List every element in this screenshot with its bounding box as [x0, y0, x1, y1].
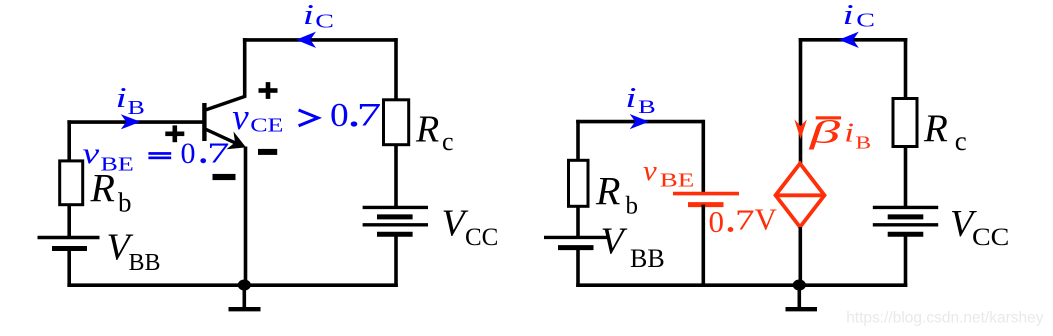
svg-text:i: i	[844, 117, 854, 147]
resistor Rb	[60, 161, 83, 205]
label 0.7V red	[709, 201, 778, 239]
wire VCC to bottom right	[904, 234, 908, 287]
battery VCC right short plate 1	[888, 214, 924, 219]
wire source branch vertical bottom	[798, 227, 802, 285]
wire base horizontal	[67, 120, 203, 124]
wire Rc top	[394, 38, 398, 100]
label iC current	[303, 0, 334, 32]
svg-text:7: 7	[207, 137, 229, 169]
svg-text:0: 0	[181, 137, 196, 170]
svg-text:0: 0	[709, 204, 725, 239]
battery VCC long plate 2	[363, 223, 428, 226]
wire Rc to battery	[394, 145, 398, 208]
label VBB right	[601, 221, 665, 274]
label Rc right	[923, 107, 967, 156]
resistor Rc	[384, 100, 409, 145]
label iB right	[625, 82, 655, 118]
arrow iC right	[839, 32, 859, 48]
battery VBB right short plate	[558, 245, 594, 250]
svg-text:v: v	[643, 156, 658, 186]
label Rc	[415, 109, 454, 157]
label vCE > 0.7	[232, 96, 381, 138]
plus sign base	[165, 125, 184, 142]
svg-text:i: i	[843, 0, 854, 31]
svg-text:c: c	[442, 127, 454, 156]
dependent source middle bar	[776, 193, 825, 197]
svg-text:BB: BB	[129, 250, 161, 276]
battery VBB long plate	[38, 236, 100, 239]
svg-text:i: i	[625, 82, 636, 114]
svg-text:BE: BE	[101, 153, 134, 175]
ground bar right	[786, 307, 818, 311]
label iB current	[116, 82, 145, 119]
svg-text:R: R	[923, 107, 948, 150]
battery VCC right short plate 2	[888, 232, 924, 237]
wire bottom horizontal right	[576, 283, 907, 287]
minus sign vCE	[258, 149, 277, 155]
svg-text:CE: CE	[250, 114, 283, 136]
arrow iB right	[630, 114, 650, 129]
resistor Rc right	[893, 99, 917, 147]
svg-text:B: B	[856, 132, 872, 153]
transistor Q1 collector diagonal	[204, 96, 246, 111]
transistor Q1 emitter arrow	[227, 132, 247, 150]
svg-text:C: C	[315, 10, 334, 32]
svg-text:V: V	[755, 201, 778, 236]
arrow beta iB red	[794, 119, 807, 139]
wire battery to bottom	[67, 249, 71, 288]
svg-text:7: 7	[357, 97, 382, 133]
battery VCC right long plate 1	[873, 206, 938, 209]
ground stub	[243, 285, 247, 307]
wire left vertical top	[67, 120, 71, 160]
wire VCC to bottom	[394, 234, 398, 287]
svg-text:β: β	[809, 114, 842, 150]
wire battery to bottom right	[576, 248, 580, 287]
svg-text:v: v	[232, 97, 249, 138]
label vBE = 0.7	[83, 137, 230, 176]
wire emitter vertical	[244, 147, 248, 286]
resistor Rb right	[569, 160, 589, 206]
svg-text:BB: BB	[630, 244, 665, 273]
svg-text:CC: CC	[465, 224, 498, 251]
svg-text:https://blog.csdn.net/karshey: https://blog.csdn.net/karshey	[846, 310, 1044, 327]
ground stub right	[797, 285, 801, 307]
wire top horizontal	[243, 38, 398, 42]
battery VCC right long plate 2	[873, 223, 938, 226]
wire top horizontal right	[799, 38, 908, 42]
label vBE red	[643, 156, 694, 191]
label Rb right	[595, 169, 638, 220]
battery VCC short plate 2	[377, 232, 413, 237]
battery VCC short plate 1	[377, 214, 413, 219]
svg-text:b: b	[118, 188, 132, 218]
wire vBE branch vertical top	[701, 120, 705, 194]
svg-text:c: c	[955, 126, 967, 156]
transistor Q1 emitter diagonal	[204, 129, 238, 145]
svg-text:B: B	[638, 96, 656, 117]
svg-text:i: i	[116, 82, 127, 114]
label iC right	[843, 0, 875, 31]
battery VBB short plate	[52, 246, 87, 251]
svg-text:i: i	[303, 0, 314, 31]
battery VBB right long plate	[544, 236, 610, 239]
svg-text:R: R	[595, 169, 620, 214]
transistor Q1 base bar	[202, 103, 206, 141]
svg-text:CC: CC	[972, 222, 1009, 250]
arrow iB	[121, 114, 141, 129]
svg-text:V: V	[601, 221, 628, 263]
wire Rc to battery right	[904, 146, 908, 207]
node junction dot right	[793, 280, 806, 291]
battery VCC long plate 1	[363, 206, 428, 209]
svg-text:B: B	[128, 97, 145, 119]
wire vBE branch vertical bottom	[701, 205, 705, 286]
svg-text:BE: BE	[660, 170, 695, 192]
label beta iB red	[809, 114, 872, 153]
battery 0.7V short plate red	[688, 202, 724, 207]
wire left vertical	[576, 120, 580, 161]
battery 0.7V long plate red	[673, 192, 739, 196]
wire Rb to battery right	[576, 206, 580, 237]
wire source branch vertical top	[799, 38, 803, 165]
wire top-left horizontal	[576, 120, 705, 124]
wire Rc top right	[904, 38, 908, 100]
plus sign vCE	[259, 82, 278, 99]
minus sign vBE	[213, 174, 236, 180]
svg-text:C: C	[856, 9, 875, 31]
wire bottom horizontal	[67, 283, 397, 287]
node junction dot	[238, 280, 251, 291]
label Rb	[90, 166, 132, 218]
wire Rb to battery	[67, 205, 71, 238]
svg-text:v: v	[83, 138, 101, 171]
svg-text:7: 7	[735, 204, 755, 236]
svg-text:R: R	[415, 109, 439, 151]
dependent current source diamond	[776, 164, 825, 228]
svg-text:0: 0	[330, 96, 349, 134]
label VCC right	[950, 203, 1009, 251]
wire collector vertical	[243, 38, 247, 97]
arrow iC	[296, 32, 316, 48]
label VCC	[442, 203, 499, 252]
svg-text:b: b	[626, 193, 639, 220]
ground bar	[229, 307, 261, 311]
label VBB	[107, 227, 161, 276]
